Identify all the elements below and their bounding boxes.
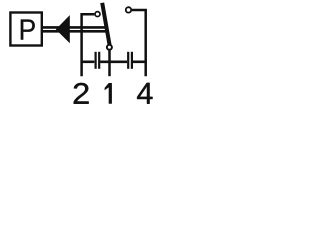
connector plate pair between pins 1 and 4 (128, 52, 132, 69)
switch lever (moving common contact) (102, 3, 109, 45)
pin number 4 (137, 83, 152, 104)
terminal 2 vertical wire with top corner (82, 14, 95, 76)
connector plate pair between pins 2 and 1 (96, 52, 100, 69)
bottom rail segment right (133, 60, 147, 63)
terminal 1 vertical wire (108, 50, 111, 76)
wire plunger shaft lower line (43, 30, 107, 33)
bottom rail segment left (82, 60, 95, 63)
pin number 2 (74, 83, 89, 104)
pivot ring node 1 (107, 45, 112, 50)
contact circle terminal 2 (95, 12, 100, 17)
pin number 1 (105, 83, 112, 104)
actuator arrowhead (plunger tip) (56, 15, 70, 43)
bottom rail segment middle (100, 60, 127, 63)
wire plunger shaft upper line (43, 26, 107, 29)
pressure port box P (10, 13, 41, 46)
terminal 4 wire with top corner (132, 10, 146, 76)
contact circle terminal 4 (126, 7, 131, 12)
